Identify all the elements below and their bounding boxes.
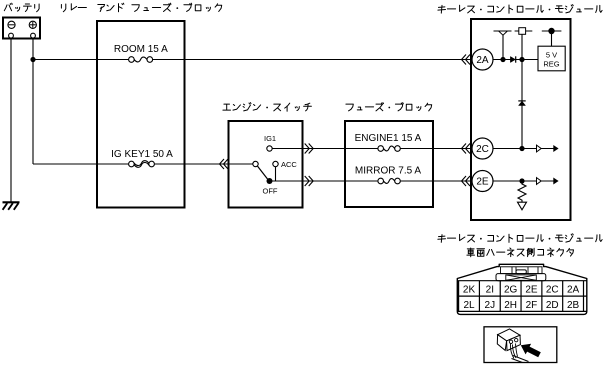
switch blade to OFF [257, 166, 267, 179]
arrow end 2E [553, 178, 558, 185]
connector pin labels [463, 284, 580, 311]
arrow end 2C [553, 145, 558, 152]
svg-text:2L: 2L [463, 300, 475, 311]
svg-text:OFF: OFF [263, 187, 278, 196]
wire OFF/ACC row to MIRROR fuse [272, 180, 379, 182]
wire node2 down to 2C row [521, 60, 523, 149]
wire ENGINE1 fuse to module pin 2C [400, 148, 473, 150]
svg-text:2J: 2J [485, 300, 496, 311]
connector icon frame [484, 327, 557, 363]
power symbol triangle [494, 31, 512, 35]
fuse ENGINE1 15 A [355, 133, 422, 151]
svg-text:2H: 2H [504, 300, 517, 311]
switch contact OFF [263, 178, 278, 196]
battery [3, 18, 40, 39]
svg-text:MIRROR 7.5 A: MIRROR 7.5 A [355, 166, 421, 177]
wire IG KEY row inside relay box [96, 163, 129, 165]
node junction 2C [519, 146, 524, 151]
switch contact IG1 [264, 134, 276, 151]
ground signal triangle [518, 202, 527, 210]
connector icon arrow [521, 344, 541, 358]
keyless control module [471, 19, 571, 220]
fuse block [345, 121, 433, 207]
wire ACC drop [275, 167, 277, 181]
label engine switch [223, 103, 312, 112]
wire dot symbol to 5V REG top [551, 31, 553, 46]
wire IG KEY fuse to engine switch [154, 163, 253, 165]
svg-text:ENGINE1 15 A: ENGINE1 15 A [355, 133, 422, 144]
connector pin grid [457, 281, 587, 312]
wire node B+ down to IG KEY row [32, 60, 34, 165]
fuse IG KEY1 50 A [111, 149, 173, 167]
label keyless control module connector line1 [438, 234, 602, 243]
switch common pole [253, 161, 258, 166]
label fuse block [346, 103, 432, 111]
node junction battery positive [30, 57, 35, 62]
diode D1 [510, 56, 515, 62]
resistor R1 [518, 181, 526, 202]
wire MIRROR fuse to module pin 2E [400, 180, 473, 182]
svg-text:2E: 2E [525, 284, 538, 295]
label battery [4, 3, 39, 12]
pin 2E [472, 171, 493, 192]
wire B+ to ROOM fuse [33, 59, 129, 61]
label relay and fuse block [61, 3, 221, 12]
wire node2 up to square symbol [521, 34, 523, 59]
diode D2 [518, 101, 525, 106]
svg-text:2A: 2A [476, 55, 489, 66]
regulator 5V REG [538, 46, 565, 71]
svg-text:2C: 2C [476, 144, 489, 155]
connector icon cube [497, 329, 528, 363]
relay and fuse block [97, 21, 185, 208]
node junction 2E [519, 178, 524, 183]
svg-text:2D: 2D [546, 300, 559, 311]
power symbol square [515, 28, 533, 35]
node junction 2A-1 [500, 57, 505, 62]
fuse MIRROR 7.5 A [355, 166, 421, 184]
connector chevron out of engine switch ACC [305, 176, 314, 186]
wire node1 up to B+ symbol [502, 35, 504, 60]
wire battery negative to ground [10, 39, 12, 203]
connector housing [457, 264, 587, 314]
wire 2A to 5V REG [493, 59, 538, 61]
wire ROOM fuse to module pin 2A [152, 59, 473, 61]
svg-text:2B: 2B [567, 300, 580, 311]
svg-text:2A: 2A [567, 284, 580, 295]
connector chevron pin 2E [462, 176, 471, 186]
wire battery positive down [32, 39, 34, 60]
svg-text:2K: 2K [463, 284, 476, 295]
svg-text:2E: 2E [476, 177, 489, 188]
ground chassis [3, 202, 20, 210]
svg-text:2I: 2I [486, 284, 494, 295]
pin 2A [472, 49, 493, 70]
svg-text:2F: 2F [526, 300, 538, 311]
connector chevron into engine switch [220, 159, 229, 169]
svg-text:ROOM 15 A: ROOM 15 A [114, 44, 168, 55]
connector lock bowtie [496, 274, 546, 281]
svg-text:IG1: IG1 [264, 134, 276, 143]
svg-text:REG: REG [543, 59, 559, 68]
svg-text:2G: 2G [504, 284, 518, 295]
pin 2C [472, 138, 493, 159]
svg-text:2C: 2C [546, 284, 559, 295]
connector chevron pin 2A [462, 55, 471, 65]
svg-text:5 V: 5 V [546, 50, 557, 59]
connector latch tab [501, 267, 543, 274]
svg-text:ACC: ACC [281, 160, 297, 169]
node junction 2A-2 [519, 57, 524, 62]
flow arrow 2C [537, 145, 542, 152]
flow arrow 2E [537, 178, 542, 185]
wire 2E output [493, 180, 555, 182]
engine switch [229, 121, 303, 208]
power symbol dot [542, 28, 562, 34]
wire 2C output [493, 148, 555, 150]
connector chevron pin 2C [462, 144, 471, 154]
fuse ROOM 15 A [114, 44, 168, 62]
label keyless control module [438, 5, 602, 14]
label vehicle harness side connector line2 [467, 248, 574, 257]
wire to relay box IG KEY row [33, 163, 96, 165]
wire IG1 to ENGINE1 fuse [272, 148, 379, 150]
connector chevron out of engine switch IG1 [305, 144, 314, 154]
svg-text:IG KEY1 50 A: IG KEY1 50 A [111, 149, 173, 160]
switch contact ACC [273, 160, 298, 169]
